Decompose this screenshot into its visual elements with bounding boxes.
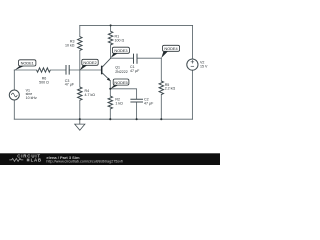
svg-text:500 Ω: 500 Ω — [39, 80, 49, 84]
Q1 collector diagonal — [102, 58, 111, 67]
svg-text:http://www.circuitlab.com/circ: http://www.circuitlab.com/circuit/8dbtra… — [46, 159, 124, 163]
label R1 value — [115, 35, 125, 43]
svg-text:4.7 kΩ: 4.7 kΩ — [85, 93, 96, 97]
V2 plus sign — [191, 60, 194, 63]
svg-text:2.2 kΩ: 2.2 kΩ — [165, 86, 176, 90]
svg-text:LAB: LAB — [31, 158, 42, 163]
label V2 value — [200, 61, 208, 69]
resistor R2 — [108, 96, 112, 109]
transistor Q1 — [102, 58, 111, 81]
svg-text:NODE5: NODE5 — [114, 80, 127, 85]
svg-text:47 µF: 47 µF — [130, 69, 140, 73]
junction dot rail R2 — [109, 118, 111, 120]
svg-text:NODE4: NODE4 — [164, 46, 178, 51]
label C1 value — [130, 65, 140, 73]
Q1 base bar — [101, 66, 103, 75]
capacitor C3 plates — [66, 65, 69, 75]
label Q1 value — [115, 66, 128, 74]
capacitor C2 plates — [130, 99, 143, 102]
label R6 value — [39, 76, 49, 84]
wire R3 top stub — [79, 25, 81, 36]
ground — [75, 119, 85, 130]
label C2 value — [144, 98, 154, 106]
node NODE4 — [161, 45, 179, 58]
schematic background — [0, 0, 220, 165]
voltage source V1 circle — [9, 90, 19, 100]
wire C2 bottom to rail — [136, 102, 138, 119]
svg-text:2N2222: 2N2222 — [115, 70, 128, 74]
capacitor C1 plates — [134, 54, 138, 64]
label C3 value — [65, 79, 75, 87]
resistor R1 — [108, 31, 112, 45]
junction dot NODE5 — [109, 88, 111, 90]
wire V2 bottom stub — [191, 70, 193, 119]
voltage source V2 circle — [187, 59, 198, 70]
resistor R3 — [78, 37, 82, 51]
label R5 value — [165, 83, 176, 91]
V1 sine symbol — [11, 93, 17, 97]
wire NODE4 down to R5 — [160, 58, 162, 81]
junction dot top rail R1 — [110, 24, 112, 26]
node NODE1 — [14, 60, 36, 71]
wire emitter down through NODE5 to R2 — [109, 81, 111, 97]
wire R5 bottom to rail — [160, 95, 162, 120]
CircuitLab logo — [9, 154, 41, 163]
svg-text:47 µF: 47 µF — [65, 82, 75, 86]
wire C1 to NODE4 junction — [137, 57, 161, 59]
junction dot rail C2 — [136, 118, 138, 120]
svg-text:1 kΩ: 1 kΩ — [115, 101, 123, 105]
wire NODE1 to R6 — [14, 69, 36, 71]
node NODE3 — [111, 47, 130, 58]
label R4 value — [85, 89, 96, 97]
wire V2 top stub — [192, 25, 194, 59]
wire NODE2 down to R4 — [79, 70, 81, 87]
wire R1 bottom to collector node — [110, 45, 112, 58]
wire R2 bottom to rail — [109, 109, 111, 119]
svg-text:47 µF: 47 µF — [144, 101, 154, 105]
wire collector node to C1 — [111, 57, 134, 59]
wire R3 bottom to NODE2 — [79, 50, 81, 70]
resistor R4 — [78, 87, 82, 100]
svg-text:NODE2: NODE2 — [83, 60, 96, 65]
node NODE2 — [80, 59, 98, 70]
label R3 value — [65, 39, 75, 47]
V2 minus sign — [191, 65, 194, 67]
wire R4 bottom to rail — [79, 100, 81, 119]
label R2 value — [115, 97, 123, 105]
svg-text:NODE1: NODE1 — [21, 61, 34, 66]
wire V1 top branch — [13, 70, 15, 90]
wire NODE5 branch to C2 — [110, 89, 136, 99]
svg-text:NODE3: NODE3 — [114, 48, 127, 53]
label V1 value — [26, 88, 37, 100]
wire C3 to NODE2 junction to Q1 base — [69, 69, 101, 71]
node NODE5 — [110, 79, 129, 89]
Q1 emitter arrowhead — [107, 78, 111, 81]
resistor R6 — [37, 68, 51, 72]
Q1 emitter diagonal — [102, 73, 110, 81]
resistor R5 — [159, 81, 163, 95]
svg-text:10 kΩ: 10 kΩ — [65, 43, 75, 47]
wire top rail — [80, 24, 193, 26]
svg-text:10 kHz: 10 kHz — [26, 96, 37, 100]
wire V1 bottom to rail — [13, 100, 15, 119]
svg-text:100 Ω: 100 Ω — [115, 38, 125, 42]
wire bottom rail — [14, 118, 192, 120]
svg-text:15 V: 15 V — [200, 64, 208, 68]
wire R1 top stub — [110, 25, 112, 31]
junction dot rail R5 — [160, 118, 162, 120]
junction dot rail R4 — [79, 118, 81, 120]
wire R6 to C3 — [50, 69, 66, 71]
footer bar — [0, 153, 220, 165]
